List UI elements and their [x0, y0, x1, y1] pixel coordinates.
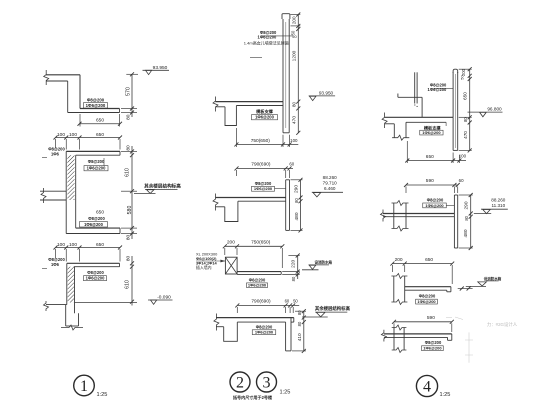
leader line fig4-1 — [434, 88, 453, 90]
svg-text:79.710: 79.710 — [323, 181, 337, 186]
break mark left slab fig1-2 — [41, 188, 46, 203]
wall fig2-2 — [286, 179, 290, 181]
hatch bottom line fig1-3 — [75, 302, 138, 304]
slab bottom left fig2-2 — [216, 206, 225, 208]
slab bottom right fig4-1 — [406, 121, 446, 123]
svg-text:100: 100 — [290, 138, 298, 143]
svg-text:80: 80 — [463, 117, 468, 122]
bottom dim line fig2-1 — [236, 143, 298, 145]
svg-text:1Φ6@200: 1Φ6@200 — [86, 276, 105, 281]
dim extension top fig1-1 — [126, 73, 138, 75]
svg-text:570: 570 — [125, 87, 131, 96]
svg-text:650: 650 — [463, 92, 468, 100]
svg-text:200: 200 — [227, 239, 235, 245]
dim 650 under fig1-1 — [80, 123, 121, 125]
svg-text:470: 470 — [291, 116, 297, 124]
svg-text:1Φ6@200: 1Φ6@200 — [254, 186, 273, 191]
upper slab bottom fig1-2 — [76, 154, 120, 156]
faint watermark dashes — [468, 332, 470, 362]
svg-text:力：#2G设计人: 力：#2G设计人 — [487, 321, 518, 328]
svg-text:650: 650 — [96, 209, 104, 215]
dim extension right fig2-4 — [295, 310, 306, 312]
svg-text:2: 2 — [236, 375, 244, 392]
svg-text:80: 80 — [297, 310, 302, 315]
wall crossing with breaks fig4-2 — [393, 203, 395, 229]
svg-text:1Φ6@200: 1Φ6@200 — [423, 346, 442, 351]
slab end hook fig4-3 — [450, 287, 452, 292]
dim line 590 fig4-4 — [394, 321, 452, 323]
dim line 100 100 650 fig1-2 — [56, 137, 121, 139]
svg-text:1Φ6@200: 1Φ6@200 — [417, 299, 436, 304]
svg-text:100: 100 — [459, 154, 467, 159]
break mark left fig1-1 — [44, 70, 49, 85]
svg-text:Φ8@200: Φ8@200 — [425, 340, 442, 345]
level mark -0.090 — [148, 299, 173, 301]
dim extensions bottom fig4-1 — [406, 141, 408, 163]
svg-text:650: 650 — [96, 242, 104, 248]
svg-text:设消防水箱: 设消防水箱 — [484, 276, 502, 281]
label below text dash fig2-1 — [250, 57, 262, 59]
upper ledge wall fig4-1 — [414, 72, 416, 103]
dim extensions fig1-3 — [55, 249, 57, 258]
upper slab end fig1-2 — [119, 151, 121, 155]
svg-text:80: 80 — [125, 145, 131, 151]
svg-text:200: 200 — [291, 16, 296, 24]
dim extensions right fig2-1 — [291, 14, 301, 16]
wall right face fig1-1 — [79, 75, 81, 109]
dim extensions right fig2-2 — [291, 179, 303, 181]
svg-text:1:25: 1:25 — [440, 392, 451, 398]
svg-text:50: 50 — [459, 75, 464, 80]
svg-text:88.260: 88.260 — [491, 198, 505, 203]
svg-text:60: 60 — [285, 298, 290, 303]
dim line 200 650 fig4-3 — [392, 263, 452, 265]
beam fig2-2 — [225, 201, 238, 221]
svg-text:410: 410 — [297, 333, 303, 341]
svg-text:1: 1 — [80, 378, 88, 395]
svg-text:Φ8@200: Φ8@200 — [88, 216, 105, 221]
vertical dimension line fig2-4 — [303, 311, 305, 351]
vertical dimension line fig1-1 — [131, 74, 133, 117]
svg-text:1Φ6@200: 1Φ6@200 — [86, 103, 106, 108]
roof slab bottom fig2-1 — [216, 106, 226, 108]
dim line 200 750(650) fig2-3 — [225, 245, 282, 247]
svg-text:220: 220 — [291, 259, 297, 267]
svg-text:80: 80 — [294, 198, 299, 203]
svg-text:650: 650 — [425, 257, 433, 263]
wall right fig2-4 — [285, 322, 287, 351]
svg-text:80: 80 — [292, 102, 297, 107]
svg-text:80: 80 — [125, 256, 131, 262]
svg-text:1Φ6@200: 1Φ6@200 — [255, 330, 274, 335]
svg-text:1.4m高女儿墙做法见建施: 1.4m高女儿墙做法见建施 — [244, 39, 289, 45]
svg-text:1Φ6@200: 1Φ6@200 — [255, 115, 274, 120]
dim extensions right fig4-2 — [459, 194, 473, 196]
wire — [46, 80, 68, 82]
svg-text:1Φ6@200: 1Φ6@200 — [258, 34, 277, 39]
slab end fig1-1 — [119, 109, 121, 113]
svg-text:1Φ6: 1Φ6 — [51, 262, 60, 267]
svg-text:1:25: 1:25 — [97, 392, 108, 398]
slab end hook fig4-4 — [451, 334, 453, 340]
svg-text:1Φ6@200: 1Φ6@200 — [248, 283, 267, 288]
svg-text:50: 50 — [293, 298, 298, 303]
dim line 590 60 fig4-2 — [406, 184, 458, 186]
svg-text:750(650): 750(650) — [251, 239, 271, 245]
svg-text:100: 100 — [57, 242, 65, 248]
slab bottom left fig4-1 — [385, 123, 395, 125]
svg-text:790(690): 790(690) — [251, 298, 271, 304]
dim extensions right fig2-3 — [288, 255, 299, 257]
dim extensions fig4-3 — [391, 265, 393, 272]
svg-text:1Φ6@200: 1Φ6@200 — [422, 130, 441, 135]
parapet wall left face fig2-1 — [282, 19, 284, 102]
slab fig4-2 — [383, 213, 454, 215]
dim extensions slab fig1-1 — [121, 108, 137, 110]
dim line 790(690) fig2-2 — [237, 167, 294, 169]
wall bottom fig2-1 — [283, 132, 289, 134]
svg-text:580: 580 — [127, 206, 133, 215]
svg-text:100: 100 — [69, 132, 77, 138]
dim extensions fig2-3 — [224, 248, 226, 255]
vertical dimension line fig2-2 — [300, 180, 302, 231]
slab bottom fig1-1 — [68, 112, 120, 114]
svg-text:60: 60 — [459, 178, 464, 183]
dim extensions right fig4-1 — [459, 68, 472, 70]
bottom slab end fig1-2 — [119, 228, 121, 233]
leader line fig2-1 — [262, 35, 293, 37]
break mark foundation bottom fig1-3 — [61, 325, 83, 330]
svg-text:Φ8@200: Φ8@200 — [427, 198, 444, 203]
level mark 93.950 detail 1 — [143, 69, 170, 71]
svg-text:480: 480 — [294, 212, 300, 220]
wall crossing with breaks fig4-3 — [393, 276, 395, 302]
svg-text:290: 290 — [463, 201, 469, 209]
vertical dimension line fig4-2 — [470, 195, 472, 248]
leader fig4-2 — [446, 204, 454, 206]
break mark slab left fig2-4 — [214, 314, 219, 331]
svg-text:4: 4 — [423, 379, 431, 396]
dim extensions fig2-2 — [236, 170, 238, 176]
svg-text:80: 80 — [125, 114, 131, 120]
leader fig2-2 — [275, 188, 286, 190]
vertical dimension line fig2-3 — [297, 256, 299, 280]
leader fig1-2 — [103, 158, 105, 166]
vertical dimension line fig2-1 — [297, 15, 299, 133]
beam with break fig4-1 — [393, 124, 395, 138]
break mark slab left fig4-1 — [382, 113, 387, 129]
svg-text:93.950: 93.950 — [319, 90, 334, 95]
svg-text:93.950: 93.950 — [153, 65, 168, 71]
wall below slab left face fig2-1 — [282, 102, 284, 133]
svg-text:80: 80 — [125, 235, 131, 241]
detail view circle 4 — [416, 375, 437, 396]
wall outer face fig1-3 — [66, 263, 68, 304]
break mark slab left fig2-2 — [213, 194, 218, 211]
slab end fig1-3 — [119, 263, 121, 266]
svg-text:1Φ6@200: 1Φ6@200 — [84, 222, 103, 227]
svg-text:200: 200 — [461, 68, 466, 76]
svg-text:290: 290 — [294, 185, 300, 193]
svg-text:1:25: 1:25 — [280, 390, 291, 396]
wire — [46, 74, 80, 76]
svg-text:其余楼层结构标高: 其余楼层结构标高 — [315, 305, 351, 312]
dim extensions fig4-2 — [405, 187, 407, 194]
slab top fig2-2 — [216, 197, 286, 199]
wall hatch fig1-3 — [68, 267, 74, 303]
svg-text:1Φ6: 1Φ6 — [51, 152, 60, 157]
svg-text:750(650): 750(650) — [251, 138, 271, 144]
svg-text:-0.090: -0.090 — [157, 294, 171, 300]
vertical dimension line fig1-2 — [131, 146, 133, 239]
small dim 30 fig4-3 — [458, 288, 473, 290]
boxed label 1phi6@200 fig1-1 — [84, 103, 108, 108]
detail view circle 1 — [74, 375, 95, 396]
level mark 96.800 — [468, 111, 503, 113]
wall inner face fig1-3 — [74, 267, 76, 314]
leader arrow fig2-3 — [196, 260, 225, 262]
svg-text:1Φ6@200: 1Φ6@200 — [428, 87, 447, 92]
svg-text:590: 590 — [426, 178, 434, 184]
svg-text:1Φ6@200: 1Φ6@200 — [425, 203, 444, 208]
vertical dimension line fig4-1 — [469, 69, 471, 150]
upper slab top fig1-2 — [66, 150, 120, 152]
wall column fig4-2 — [454, 194, 457, 196]
svg-text:650: 650 — [96, 132, 104, 138]
dim extensions right fig1-2 — [121, 150, 137, 152]
parapet rebar line fig2-1 — [285, 22, 287, 128]
svg-text:650: 650 — [96, 118, 104, 124]
svg-text:3: 3 — [263, 375, 271, 392]
dim extensions fig1-2 — [55, 139, 57, 148]
svg-text:设消防水箱: 设消防水箱 — [315, 259, 333, 264]
break mark slab left fig4-2 — [381, 210, 386, 222]
svg-text:80: 80 — [291, 276, 296, 281]
slab bottom fig2-4 — [237, 321, 285, 323]
left slab fig1-2 — [40, 190, 66, 192]
parapet rebar fig4-1 — [454, 74, 456, 148]
wall hatch fig1-2 — [67, 155, 74, 200]
beam section X-box fig2-3 — [225, 257, 237, 274]
bottom slab top fig1-2 — [76, 227, 120, 229]
svg-text:100: 100 — [57, 132, 65, 138]
svg-text:80: 80 — [297, 321, 302, 326]
svg-text:Φ8@200: Φ8@200 — [88, 159, 105, 164]
dim line 790(690) 60 50 fig2-4 — [237, 304, 299, 306]
svg-text:11.310: 11.310 — [491, 203, 505, 208]
beam fig2-1 — [225, 106, 236, 126]
svg-text:Φ8@200: Φ8@200 — [87, 98, 105, 103]
svg-text:括号内尺寸用于2号楼: 括号内尺寸用于2号楼 — [233, 394, 273, 400]
break mark roof slab fig2-1 — [213, 97, 218, 112]
svg-text:96.800: 96.800 — [487, 107, 502, 112]
slab fig4-4 — [384, 333, 452, 335]
svg-text:其余楼层结构标高: 其余楼层结构标高 — [144, 182, 181, 189]
wall below slab fig4-1 — [452, 117, 454, 150]
svg-text:插入墙内: 插入墙内 — [196, 265, 212, 270]
svg-text:80: 80 — [464, 215, 469, 220]
slab bottom fig2-2 — [238, 200, 286, 202]
slab fig4-3 — [405, 286, 451, 288]
svg-text:Φ8@200: Φ8@200 — [256, 324, 273, 329]
svg-text:610: 610 — [125, 280, 131, 289]
slab bottom fig1-3 — [74, 266, 120, 268]
svg-text:610: 610 — [125, 168, 131, 177]
svg-text:200: 200 — [395, 257, 403, 263]
svg-text:1200: 1200 — [292, 50, 298, 61]
parapet wall faces fig4-1 — [452, 72, 454, 117]
dim extensions bottom fig2-1 — [235, 128, 237, 147]
svg-text:60: 60 — [289, 161, 294, 166]
slab fig2-3 — [237, 271, 281, 273]
parapet wall right face fig2-1 — [288, 19, 290, 133]
leader fig4-1 — [445, 122, 447, 126]
svg-text:Φ8@200: Φ8@200 — [419, 293, 436, 298]
wall outer face fig1-2 — [65, 151, 67, 233]
svg-text:1Φ6@200: 1Φ6@200 — [87, 166, 106, 171]
detail view circles 2 and 3 — [230, 372, 250, 392]
svg-text:470: 470 — [463, 131, 468, 139]
svg-text:50: 50 — [290, 30, 295, 35]
foundation step fig1-3 — [46, 304, 67, 306]
roof slab top fig2-1 — [216, 101, 284, 103]
parapet cap fig2-1 — [282, 14, 290, 19]
slab top fig2-4 — [216, 317, 293, 319]
dim extensions fig2-4 — [236, 307, 238, 313]
wall crossing with breaks fig4-4 — [393, 328, 395, 351]
svg-text:88.260: 88.260 — [323, 175, 337, 180]
bottom slab bottom fig1-2 — [66, 233, 120, 235]
upper ledge fig4-1 — [398, 96, 422, 98]
vertical dimension line fig1-3 — [131, 256, 133, 306]
svg-text:480: 480 — [463, 229, 469, 237]
svg-text:Φ8@200: Φ8@200 — [87, 270, 104, 275]
wall inner face fig1-2 — [75, 155, 77, 228]
slab top fig1-1 — [80, 108, 120, 110]
dim line 100 100 650 fig1-3 — [56, 247, 121, 249]
svg-text:790(690): 790(690) — [251, 161, 271, 167]
svg-text:650: 650 — [426, 154, 434, 160]
slab top fig1-3 — [67, 262, 120, 264]
parapet cap fig4-1 — [453, 69, 458, 73]
svg-text:590: 590 — [427, 315, 435, 321]
slab bottom left fig2-4 — [216, 326, 223, 328]
level mark 93.950 detail 2 — [309, 95, 335, 97]
beam fig2-4 — [224, 322, 238, 341]
roof slab top fig4-1 — [385, 116, 454, 118]
bottom dim 650 100 fig4-1 — [407, 160, 466, 162]
svg-text:6.460: 6.460 — [324, 186, 336, 191]
dim extensions fig4-4 — [393, 323, 395, 330]
wall left face fig1-1 — [67, 81, 69, 113]
break mark slab left fig4-4 — [381, 330, 386, 342]
svg-text:100: 100 — [69, 242, 77, 248]
